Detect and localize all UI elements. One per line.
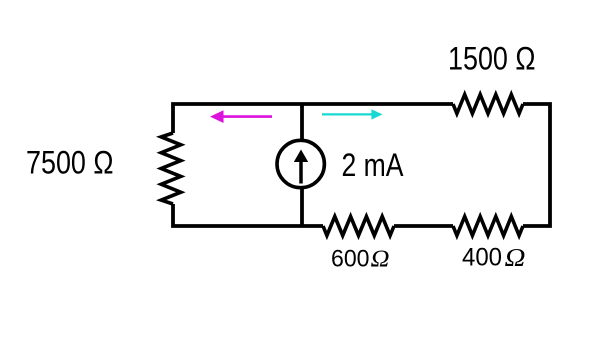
svg-text:400: 400	[462, 243, 502, 271]
svg-text:7500 Ω: 7500 Ω	[26, 145, 114, 181]
svg-text:600: 600	[331, 246, 370, 273]
svg-text:2 mA: 2 mA	[342, 147, 405, 183]
svg-text:Ω: Ω	[505, 244, 526, 271]
svg-text:Ω: Ω	[371, 247, 390, 273]
svg-text:1500 Ω: 1500 Ω	[448, 40, 536, 76]
